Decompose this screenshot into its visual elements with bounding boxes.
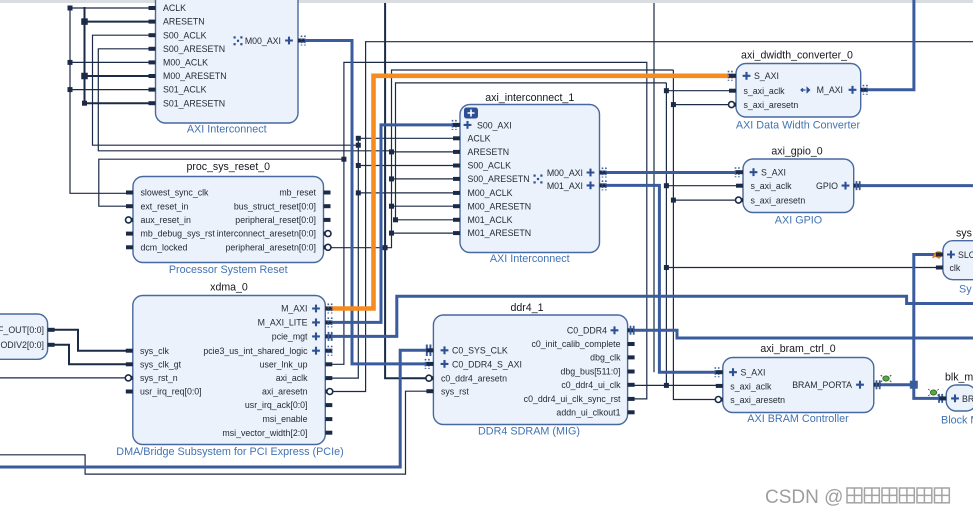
svg-text:peripheral_reset[0:0]: peripheral_reset[0:0]	[235, 215, 316, 225]
svg-text:interconnect_aresetn[0:0]: interconnect_aresetn[0:0]	[217, 229, 316, 239]
svg-text:AXI Interconnect: AXI Interconnect	[490, 253, 570, 265]
canvas top border	[0, 0, 973, 3]
wire ic0 M00_AXI to ddr4 C0_DDR4_S_AXI	[298, 41, 433, 364]
svg-text:dbg_clk: dbg_clk	[590, 353, 621, 363]
wire bram BRAM_PORTA to blk_mem and system ila	[874, 255, 946, 399]
svg-text:AXI Data Width Converter: AXI Data Width Converter	[736, 120, 861, 132]
svg-text:s_axi_aclk: s_axi_aclk	[730, 381, 772, 391]
svg-text:S00_ARESETN: S00_ARESETN	[468, 174, 530, 184]
wire reset trunk right x673	[673, 70, 722, 400]
svg-text:msi_enable: msi_enable	[263, 414, 308, 424]
wire xdma pcie_mgt to right edge	[325, 296, 973, 336]
wire reset trunk x391	[324, 70, 674, 248]
svg-text:S00_ARESETN: S00_ARESETN	[163, 44, 225, 54]
wire S00_ARESETN row ic1	[392, 178, 461, 180]
svg-text:SLO: SLO	[958, 250, 973, 260]
wire xdma M_AXI_LITE to ic1 S00_AXI	[325, 125, 460, 323]
wire dwidth s_axi_aresetn row	[673, 104, 736, 106]
wire c0_ddr4_ui_clk to bram s_axi_aclk	[628, 384, 723, 386]
svg-text:M00_AXI: M00_AXI	[547, 168, 583, 178]
wire ddr4 C0_SYS_CLK to left edge	[0, 350, 433, 467]
svg-text:peripheral_aresetn[0:0]: peripheral_aresetn[0:0]	[226, 242, 316, 252]
svg-text:S_AXI: S_AXI	[754, 71, 779, 81]
wire resetn net left vertical to S01_ARESETN	[85, 7, 156, 103]
svg-text:s_axi_aresetn: s_axi_aresetn	[751, 196, 806, 206]
AXI BRAM Controller U8 (axi_bram_ctrl_0)	[715, 343, 881, 425]
svg-text:M00_ARESETN: M00_ARESETN	[468, 201, 532, 211]
svg-text:c0_ddr4_aresetn: c0_ddr4_aresetn	[441, 374, 507, 384]
svg-text:usr_irq_ack[0:0]: usr_irq_ack[0:0]	[245, 400, 308, 410]
svg-text:sys_rst_n: sys_rst_n	[140, 373, 178, 383]
svg-text:M_AXI: M_AXI	[817, 85, 843, 95]
wire xdma M_AXI orange highlighted to dwidth S_AXI	[325, 76, 736, 309]
svg-text:BR: BR	[962, 394, 973, 404]
wire vertical x654 from top	[653, 3, 655, 372]
wire clock net left vertical to slowest_sync_clk	[70, 8, 133, 194]
svg-text:AXI GPIO: AXI GPIO	[775, 215, 822, 227]
wire S00_ACLK net ic0 to clock trunk	[93, 35, 359, 145]
wire junction dots	[68, 6, 676, 388]
svg-text:dbg_bus[511:0]: dbg_bus[511:0]	[560, 367, 620, 377]
Utility Buffer U11 (cut off at left edge)	[0, 314, 55, 359]
svg-text:axi_bram_ctrl_0: axi_bram_ctrl_0	[760, 343, 835, 355]
wire gpio s_axi_aclk row	[666, 185, 743, 187]
wire M01_ARESETN row ic1	[392, 232, 461, 234]
wire S01_ACLK row ic0	[70, 89, 156, 91]
wire ext_reset_in net	[99, 159, 344, 206]
svg-text:Sy: Sy	[959, 284, 972, 296]
debug marker green bug on BRAM_PORTA wire	[881, 375, 892, 382]
svg-text:pcie_mgt: pcie_mgt	[272, 332, 308, 342]
svg-text:S01_ACLK: S01_ACLK	[163, 85, 207, 95]
svg-text:mb_reset: mb_reset	[279, 188, 316, 198]
Block Memory Generator U10 (blk_mem, cut off at right edge)	[928, 372, 973, 427]
svg-text:s_axi_aclk: s_axi_aclk	[744, 86, 786, 96]
svg-text:usr_irq_req[0:0]: usr_irq_req[0:0]	[140, 387, 202, 397]
svg-text:proc_sys_reset_0: proc_sys_reset_0	[186, 161, 270, 173]
svg-text:ddr4_1: ddr4_1	[511, 302, 544, 314]
svg-text:s_axi_aresetn: s_axi_aresetn	[744, 100, 799, 110]
wire clock trunk x358	[325, 138, 460, 378]
svg-text:s_axi_aclk: s_axi_aclk	[751, 181, 793, 191]
svg-text:axi_dwidth_converter_0: axi_dwidth_converter_0	[741, 50, 853, 62]
wire M00_ARESETN row ic0	[85, 75, 156, 77]
svg-text:mb_debug_sys_rst: mb_debug_sys_rst	[141, 229, 216, 239]
svg-text:M00_ARESETN: M00_ARESETN	[163, 71, 227, 81]
svg-text:sys_clk_gt: sys_clk_gt	[140, 359, 182, 369]
svg-text:clk: clk	[950, 263, 961, 273]
svg-text:M00_ACLK: M00_ACLK	[163, 58, 208, 68]
svg-text:c0_ddr4_ui_clk: c0_ddr4_ui_clk	[561, 380, 621, 390]
svg-text:ARESETN: ARESETN	[468, 147, 510, 157]
svg-text:axi_interconnect_1: axi_interconnect_1	[485, 92, 574, 104]
AXI GPIO U5 (axi_gpio_0)	[736, 146, 861, 227]
DMA/Bridge Subsystem for PCI Express U6 (xdma_0)	[116, 281, 343, 458]
DDR4 SDRAM MIG U7 (ddr4_1)	[426, 302, 635, 438]
svg-text:AXI Interconnect: AXI Interconnect	[187, 124, 267, 136]
svg-text:CSDN @: CSDN @	[765, 487, 843, 508]
svg-text:S00_ACLK: S00_ACLK	[468, 161, 512, 171]
svg-text:BRAM_PORTA: BRAM_PORTA	[792, 380, 852, 390]
svg-text:sys_clk: sys_clk	[140, 346, 169, 356]
wire dwidth M_AXI up to top edge	[861, 0, 914, 90]
svg-text:c0_ddr4_ui_clk_sync_rst: c0_ddr4_ui_clk_sync_rst	[524, 394, 621, 404]
svg-text:S_AXI: S_AXI	[761, 168, 786, 178]
svg-text:axi_aclk: axi_aclk	[276, 373, 308, 383]
wire util ODIV2 to xdma sys_clk_gt	[48, 345, 133, 365]
svg-text:M01_ACLK: M01_ACLK	[468, 215, 513, 225]
wire util F_OUT to xdma sys_clk	[48, 330, 133, 351]
svg-text:axi_gpio_0: axi_gpio_0	[771, 146, 822, 158]
svg-text:dcm_locked: dcm_locked	[141, 242, 188, 252]
svg-text:C0_DDR4: C0_DDR4	[567, 325, 607, 335]
wire S00_ARESETN net ic0 to reset trunk	[98, 49, 391, 151]
svg-text:xdma_0: xdma_0	[210, 281, 248, 293]
wire M00_ARESETN row ic1	[392, 205, 461, 207]
svg-text:GPIO: GPIO	[816, 181, 838, 191]
svg-text:ODIV2[0:0]: ODIV2[0:0]	[0, 340, 44, 350]
wire system ila clk row	[666, 267, 943, 269]
wire xdma sys_rst_n to left edge	[0, 377, 133, 379]
svg-text:ARESETN: ARESETN	[163, 17, 205, 27]
svg-text:M_AXI_LITE: M_AXI_LITE	[258, 318, 308, 328]
wire ARESETN row ic1	[392, 151, 461, 153]
svg-text:Block Me: Block Me	[941, 415, 973, 427]
wire S00_ACLK row ic1	[358, 165, 460, 167]
svg-text:pcie3_us_int_shared_logic: pcie3_us_int_shared_logic	[203, 346, 308, 356]
svg-text:blk_m: blk_m	[945, 372, 973, 384]
AXI Interconnect U1 (axi_interconnect_0)	[149, 0, 306, 136]
svg-text:S_AXI: S_AXI	[741, 368, 766, 378]
svg-text:user_lnk_up: user_lnk_up	[260, 359, 308, 369]
svg-text:addn_ui_clkout1: addn_ui_clkout1	[556, 407, 620, 417]
svg-text:S00_AXI: S00_AXI	[477, 120, 512, 130]
svg-text:S00_ACLK: S00_ACLK	[163, 30, 207, 40]
svg-text:DDR4 SDRAM (MIG): DDR4 SDRAM (MIG)	[478, 426, 580, 438]
svg-text:ACLK: ACLK	[468, 133, 491, 143]
svg-text:M01_ARESETN: M01_ARESETN	[468, 228, 532, 238]
wire ic1 M00_AXI to gpio S_AXI	[600, 171, 744, 174]
svg-text:M01_AXI: M01_AXI	[547, 181, 583, 191]
wire sys_rst net ddr4 to left edge	[0, 391, 433, 474]
wire gpio GPIO to right edge	[854, 184, 973, 187]
Processor System Reset U2 (proc_sys_reset_0)	[126, 161, 332, 276]
svg-text:M00_ACLK: M00_ACLK	[468, 188, 513, 198]
svg-text:ext_reset_in: ext_reset_in	[141, 201, 189, 211]
svg-text:sys_rst: sys_rst	[441, 387, 469, 397]
wire ic1 M01_AXI to bram S_AXI	[600, 185, 723, 372]
wire M00_ACLK row ic0	[70, 61, 156, 63]
svg-text:F_OUT[0:0]: F_OUT[0:0]	[0, 325, 44, 335]
svg-text:c0_init_calib_complete: c0_init_calib_complete	[532, 339, 621, 349]
AXI Data Width Converter U4 (axi_dwidth_converter_0)	[729, 50, 868, 132]
svg-text:msi_vector_width[2:0]: msi_vector_width[2:0]	[222, 428, 307, 438]
wire clock trunk right x666	[665, 83, 667, 386]
svg-text:axi_aresetn: axi_aresetn	[262, 387, 308, 397]
svg-text:ACLK: ACLK	[163, 3, 186, 13]
wire gpio s_axi_aresetn row	[673, 199, 743, 201]
svg-text:Processor System Reset: Processor System Reset	[169, 264, 288, 276]
watermark CSDN text	[765, 487, 949, 508]
wire dwidth s_axi_aclk row	[666, 90, 736, 92]
svg-text:AXI BRAM Controller: AXI BRAM Controller	[747, 413, 849, 425]
svg-text:DMA/Bridge Subsystem for PCI E: DMA/Bridge Subsystem for PCI Express (PC…	[116, 446, 343, 458]
svg-text:C0_DDR4_S_AXI: C0_DDR4_S_AXI	[452, 359, 522, 369]
wire axi_aresetn top rail	[325, 42, 973, 392]
System ILA U9 (sys, cut off at right edge)	[933, 228, 973, 296]
svg-text:S01_ARESETN: S01_ARESETN	[163, 98, 225, 108]
svg-text:bus_struct_reset[0:0]: bus_struct_reset[0:0]	[234, 201, 316, 211]
wire clock trunk B x395 to M01_ACLK	[396, 83, 667, 220]
wire ACLK row ic0	[70, 7, 156, 9]
wire user_lnk_up sync_rst chain	[325, 62, 647, 399]
wire M00_ACLK row ic1	[358, 192, 460, 194]
svg-text:slowest_sync_clk: slowest_sync_clk	[141, 188, 210, 198]
wire peripheral_aresetn dark net to c0_ddr4_aresetn	[385, 3, 433, 378]
svg-text:M00_AXI: M00_AXI	[245, 36, 281, 46]
wire ddr4 C0_DDR4 to right edge	[628, 330, 973, 338]
AXI Interconnect U3 (axi_interconnect_1)	[453, 92, 607, 265]
svg-text:C0_SYS_CLK: C0_SYS_CLK	[452, 346, 508, 356]
svg-text:s_axi_aresetn: s_axi_aresetn	[730, 395, 785, 405]
svg-text:aux_reset_in: aux_reset_in	[141, 215, 191, 225]
wire ARESETN row ic0	[85, 21, 156, 23]
svg-text:M_AXI: M_AXI	[281, 304, 307, 314]
svg-text:sys: sys	[956, 228, 972, 240]
